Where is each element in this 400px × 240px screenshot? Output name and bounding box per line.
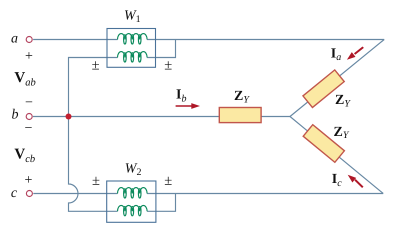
- label plus Vab: [25, 49, 33, 64]
- svg-text:Ic: Ic: [332, 172, 342, 189]
- svg-text:a: a: [11, 32, 18, 47]
- svg-text:Ib: Ib: [176, 88, 186, 105]
- W1 voltage coil: [118, 52, 148, 62]
- wire line b: [33, 116, 290, 118]
- W2 voltage coil: [118, 205, 148, 215]
- terminal a: [26, 37, 32, 43]
- svg-text:−: −: [25, 96, 33, 111]
- wire W1 voltage coil right lead to line a: [147, 40, 175, 58]
- W1 current coil: [118, 34, 148, 44]
- svg-text:c: c: [11, 186, 18, 201]
- voltage Vab: [14, 70, 35, 89]
- svg-text:b: b: [12, 107, 19, 122]
- svg-text:±: ±: [92, 173, 100, 189]
- svg-text:ZY: ZY: [335, 93, 351, 109]
- svg-text:ZY: ZY: [334, 125, 350, 141]
- W2 current coil: [118, 188, 148, 198]
- W1 polarity mark left: [92, 58, 100, 74]
- voltage Vcb: [14, 146, 35, 165]
- label plus Vcb: [25, 173, 33, 188]
- current Ic arrow: [348, 175, 364, 188]
- svg-text:Vcb: Vcb: [14, 146, 35, 165]
- wire line a right segment: [147, 39, 384, 41]
- label c: [11, 186, 18, 201]
- wire phase a diagonal: [290, 40, 384, 117]
- current Ia arrow: [347, 47, 364, 60]
- W2 polarity mark right: [164, 173, 172, 189]
- wattmeter W1 box: [107, 29, 156, 68]
- wire line c left segment: [33, 193, 117, 195]
- label a: [11, 32, 18, 47]
- impedance ZY phase a box: [303, 70, 344, 108]
- current Ib label: [176, 88, 186, 105]
- svg-text:W1: W1: [124, 9, 141, 26]
- wire W1 voltage coil left lead to node b: [69, 58, 118, 117]
- wire node b to W2 voltage coil with hop over line c: [69, 117, 118, 212]
- svg-text:Ia: Ia: [331, 46, 341, 63]
- svg-text:ZY: ZY: [234, 89, 250, 105]
- svg-text:W2: W2: [125, 161, 142, 178]
- svg-text:±: ±: [164, 58, 172, 74]
- label W1: [124, 9, 141, 26]
- wire line a left segment: [33, 39, 117, 41]
- svg-text:+: +: [25, 173, 33, 188]
- impedance ZY phase b box: [219, 108, 261, 123]
- wattmeter W2 box: [107, 181, 156, 222]
- svg-text:±: ±: [164, 173, 172, 189]
- terminal c: [26, 191, 32, 197]
- W2 polarity mark left: [92, 173, 100, 189]
- label W2: [125, 161, 142, 178]
- current Ic label: [332, 172, 342, 189]
- label ZY phase c: [334, 125, 350, 141]
- svg-text:±: ±: [92, 58, 100, 74]
- label ZY phase a: [335, 93, 351, 109]
- svg-text:+: +: [25, 49, 33, 64]
- terminal b: [26, 114, 32, 120]
- wire line c right segment: [147, 193, 383, 195]
- W1 polarity mark right: [164, 58, 172, 74]
- current Ib arrow: [176, 103, 200, 109]
- label ZY phase b: [234, 89, 250, 105]
- svg-text:Vab: Vab: [14, 70, 35, 89]
- current Ia label: [331, 46, 341, 63]
- impedance ZY phase c box: [303, 125, 344, 163]
- label minus Vcb: [25, 121, 33, 136]
- svg-text:−: −: [25, 121, 33, 136]
- label b: [12, 107, 19, 122]
- wire W2 voltage coil right lead to line c: [147, 194, 175, 212]
- junction node b: [66, 114, 72, 120]
- wire phase c diagonal: [290, 117, 383, 194]
- label minus Vab: [25, 96, 33, 111]
